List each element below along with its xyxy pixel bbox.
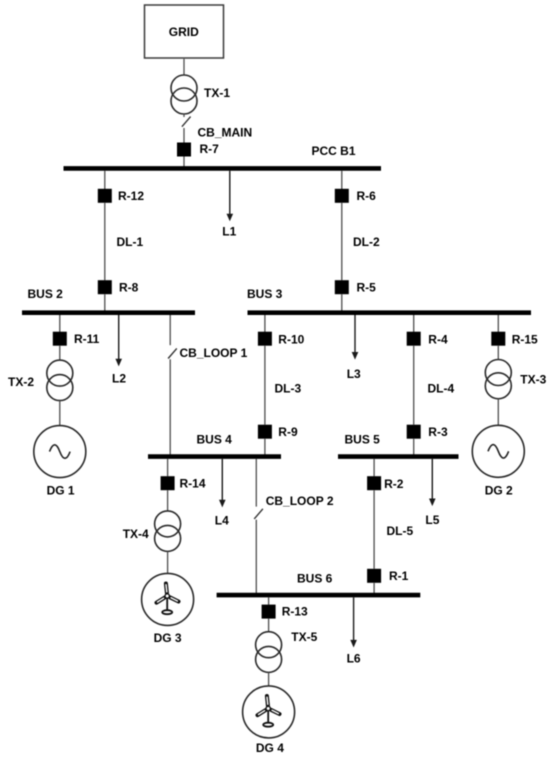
svg-text:R-7: R-7: [200, 142, 220, 156]
wire: TX-4 to DG 3: [167, 551, 169, 573]
bus BUS 5: [338, 454, 459, 459]
relay R-10: [258, 332, 272, 346]
generator DG 1: [34, 426, 86, 478]
bus PCC B1: [64, 166, 382, 171]
wire: BUS 3 to R-4: [413, 315, 415, 332]
transformer TX-4: [155, 511, 181, 537]
wire: line DL-3: [264, 346, 266, 425]
transformer TX-2: [47, 360, 73, 386]
wire: line DL-4: [413, 346, 415, 425]
load L6: [353, 597, 355, 641]
svg-text:DG 2: DG 2: [485, 484, 513, 498]
relay R-13: [262, 605, 276, 619]
svg-text:DL-5: DL-5: [387, 524, 414, 538]
svg-text:R-8: R-8: [119, 280, 139, 294]
svg-text:L5: L5: [425, 513, 439, 527]
svg-text:R-12: R-12: [118, 189, 144, 203]
svg-text:R-1: R-1: [389, 569, 409, 583]
relay R-7: [177, 143, 191, 157]
load L3: [354, 315, 356, 354]
svg-text:GRID: GRID: [169, 25, 199, 39]
relay R-15: [491, 332, 505, 346]
relay R-12: [98, 189, 112, 203]
wire: BUS 4 to R-14: [167, 459, 169, 476]
svg-text:CB_MAIN: CB_MAIN: [198, 125, 253, 139]
load L5: [431, 459, 433, 500]
svg-text:BUS 3: BUS 3: [247, 287, 283, 301]
generator DG 3: [142, 573, 194, 625]
wire: PCC B1 to R-12: [104, 171, 106, 189]
wire: TX-1 to CB_MAIN: [183, 114, 185, 117]
svg-text:L6: L6: [347, 651, 361, 665]
svg-text:R-11: R-11: [74, 332, 100, 346]
wire: BUS 4 to CB_LOOP 2: [255, 459, 257, 507]
wire: BUS 6 to R-13: [268, 597, 270, 604]
circuit breaker CB_LOOP 1: [168, 348, 177, 358]
svg-text:DL-4: DL-4: [428, 381, 455, 395]
svg-text:L3: L3: [347, 367, 361, 381]
generator DG 4: [243, 686, 295, 738]
wire: R-11 to TX-2: [59, 346, 61, 361]
relay R-5: [335, 280, 349, 294]
wire: R-8 to BUS 2: [104, 294, 106, 311]
bus BUS 3: [248, 310, 532, 315]
wire: BUS 3 to R-15: [497, 315, 499, 332]
wire: CB_LOOP 2 to BUS 6: [255, 520, 257, 594]
wire: TX-3 to DG 2: [497, 399, 499, 426]
wire: PCC B1 to R-6: [341, 171, 343, 189]
svg-text:R-15: R-15: [512, 332, 538, 346]
relay R-11: [53, 332, 67, 346]
relay R-1: [367, 569, 381, 583]
svg-text:BUS 2: BUS 2: [28, 287, 64, 301]
relay R-14: [161, 476, 175, 490]
relay R-3: [407, 425, 421, 439]
svg-text:DG 4: DG 4: [256, 741, 284, 755]
svg-text:L1: L1: [222, 225, 236, 239]
wire: TX-5 to DG 4: [268, 672, 270, 686]
svg-text:TX-3: TX-3: [520, 373, 546, 387]
wire: BUS 3 to R-10: [264, 315, 266, 332]
svg-text:DG 1: DG 1: [47, 483, 75, 497]
wire: TX-2 to DG 1: [59, 401, 61, 426]
load L1: [229, 171, 231, 216]
svg-text:R-9: R-9: [278, 425, 298, 439]
svg-text:R-5: R-5: [357, 280, 377, 294]
svg-text:DL-1: DL-1: [117, 235, 144, 249]
wire: line DL-5: [373, 490, 375, 569]
svg-text:R-10: R-10: [278, 332, 304, 346]
generator DG 2: [472, 425, 524, 477]
svg-text:TX-5: TX-5: [291, 630, 317, 644]
svg-text:L2: L2: [112, 371, 126, 385]
bus BUS 2: [22, 310, 195, 315]
svg-text:DG 3: DG 3: [154, 631, 182, 645]
wire: R-14 to TX-4: [167, 490, 169, 511]
svg-text:BUS 6: BUS 6: [297, 571, 333, 585]
svg-text:L4: L4: [215, 513, 229, 527]
wire: BUS 5 to R-2: [373, 459, 375, 476]
wire: R-1 to BUS 6: [373, 583, 375, 593]
wire: CB_LOOP 1 to BUS 4: [169, 359, 171, 455]
svg-text:PCC B1: PCC B1: [312, 144, 356, 158]
bus BUS 6: [217, 593, 421, 598]
wire: line DL-2: [341, 203, 343, 280]
relay R-2: [367, 476, 381, 490]
relay R-8: [98, 280, 112, 294]
relay R-4: [407, 332, 421, 346]
circuit breaker CB_MAIN: [182, 117, 191, 127]
load L2: [118, 315, 120, 360]
wire: line DL-1: [104, 203, 106, 280]
wire: CB_MAIN to R-7: [183, 128, 185, 143]
svg-text:R-6: R-6: [357, 189, 377, 203]
svg-text:R-3: R-3: [428, 425, 448, 439]
wire: R-7 to bus PCC B1: [183, 157, 185, 168]
svg-text:R-4: R-4: [428, 332, 448, 346]
transformer TX-5: [256, 632, 282, 658]
wire: R-5 to BUS 3: [341, 294, 343, 311]
wire: R-9 to BUS 4: [264, 439, 266, 455]
wire: R-3 to BUS 5: [413, 439, 415, 455]
relay R-6: [335, 189, 349, 203]
svg-text:R-14: R-14: [180, 476, 206, 490]
svg-text:CB_LOOP 1: CB_LOOP 1: [180, 346, 248, 360]
wire: R-13 to TX-5: [268, 619, 270, 632]
circuit breaker CB_LOOP 2: [254, 509, 263, 519]
svg-text:DL-3: DL-3: [275, 381, 302, 395]
svg-text:R-13: R-13: [282, 604, 308, 618]
svg-text:BUS 5: BUS 5: [345, 432, 381, 446]
relay R-9: [258, 425, 272, 439]
wire: R-15 to TX-3: [497, 346, 499, 360]
load L4: [221, 459, 223, 501]
svg-text:TX-4: TX-4: [123, 527, 149, 541]
transformer TX-3: [485, 360, 511, 386]
svg-text:CB_LOOP 2: CB_LOOP 2: [266, 494, 334, 508]
svg-text:DL-2: DL-2: [353, 235, 380, 249]
transformer TX-1: [171, 75, 197, 101]
bus BUS 4: [148, 454, 281, 459]
svg-text:BUS 4: BUS 4: [197, 432, 233, 446]
svg-text:R-2: R-2: [384, 477, 404, 491]
wire: BUS 2 to CB_LOOP 1: [169, 315, 171, 345]
svg-text:TX-1: TX-1: [204, 86, 230, 100]
wire: BUS 2 to R-11: [59, 315, 61, 332]
wire: GRID to TX-1: [183, 59, 185, 75]
svg-text:TX-2: TX-2: [8, 375, 34, 389]
utility source GRID: [145, 5, 224, 58]
